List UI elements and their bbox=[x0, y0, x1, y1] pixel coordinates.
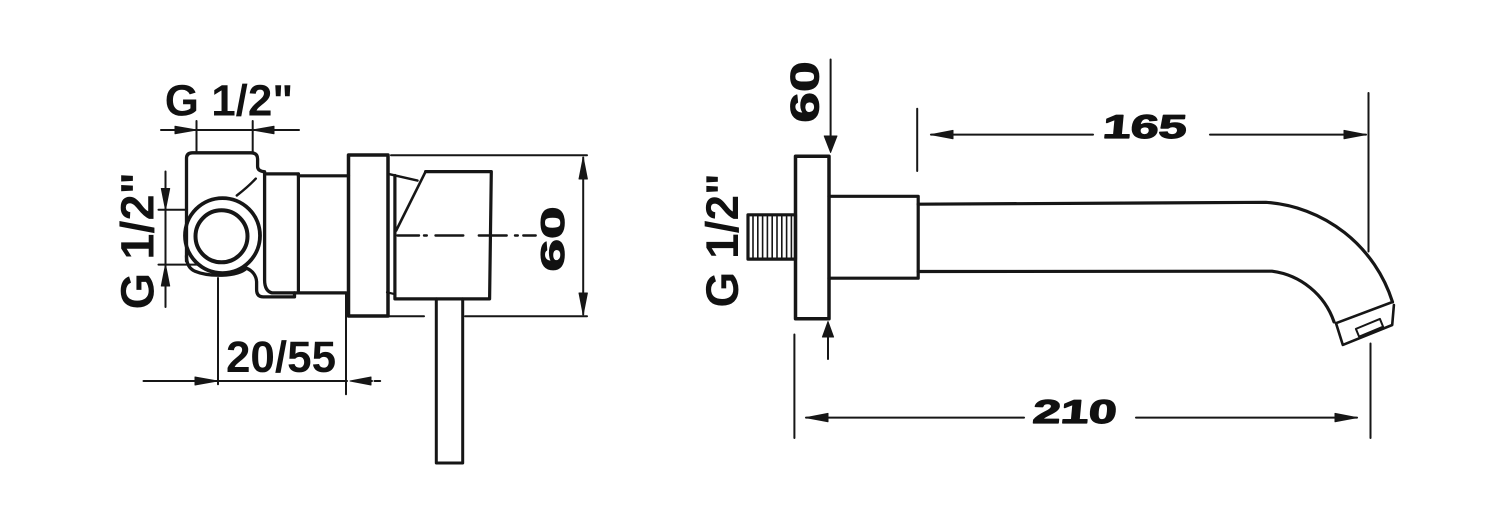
dimension 60 (right view) upper line bbox=[830, 60, 832, 141]
spout end face line bbox=[1336, 302, 1393, 323]
dimension 20/55 right arrow (points left) bbox=[350, 377, 371, 385]
svg-text:G 1/2": G 1/2" bbox=[165, 77, 293, 126]
spout tube bottom line and curve bbox=[918, 271, 1334, 322]
svg-text:210: 210 bbox=[1031, 393, 1118, 430]
dimension 60 (left view) vertical line bbox=[582, 158, 584, 315]
dimension 165 left arrow (points left) bbox=[931, 130, 953, 138]
dimension 210 left arrow (points left) bbox=[806, 413, 828, 421]
dimension 60 (right view) upper arrow (points down) bbox=[824, 136, 837, 153]
valve inlet block outline bbox=[187, 153, 347, 293]
dimension 165 left extension line bbox=[916, 109, 918, 171]
dimension 165 right extension line upper bbox=[1368, 93, 1370, 252]
dimension 20/55 dashes right bbox=[369, 380, 381, 382]
dimension 210 left extension line bbox=[793, 335, 795, 439]
dimension 20/55 right extension line bbox=[345, 293, 347, 394]
chamfer line inside block bbox=[237, 179, 256, 196]
dimension 210 right arrow (points right) bbox=[1335, 413, 1357, 421]
svg-text:G 1/2": G 1/2" bbox=[696, 173, 748, 307]
mid body top edge bbox=[265, 172, 299, 175]
dimension 165 right arrow (points right) bbox=[1344, 130, 1366, 138]
svg-text:165: 165 bbox=[1101, 108, 1188, 145]
dimension 165 right extension line lower bbox=[1370, 344, 1372, 439]
escutcheon plate bbox=[349, 155, 389, 316]
dimension 60 (left view) bottom extension line left part bbox=[382, 315, 424, 317]
svg-text:60: 60 bbox=[784, 61, 828, 122]
wall flange plate bbox=[796, 156, 830, 319]
mid body separator line bbox=[297, 174, 300, 293]
dimension 165 line left part bbox=[931, 134, 1093, 136]
dimension G 1/2" (left) vertical line bbox=[165, 172, 167, 308]
dimension 210 line right part bbox=[1136, 417, 1357, 419]
dimension 60 (left view) bottom arrow bbox=[579, 293, 587, 315]
dimension G 1/2" (left) bottom arrow (points up) bbox=[161, 265, 169, 286]
aerator inner rectangle bbox=[1356, 319, 1383, 337]
centerline (dash-dot) bbox=[398, 234, 536, 236]
dimension 60 (right view) lower stem bbox=[827, 336, 829, 359]
spout base section bbox=[829, 196, 918, 278]
dimension 20/55 left extension line (from port center) bbox=[217, 278, 219, 384]
handle body outline bbox=[395, 172, 491, 299]
dimension 60 (left view) bottom extension line right part bbox=[465, 315, 587, 317]
dimension 20/55 left arrow (points right) bbox=[195, 377, 218, 385]
svg-text:20/55: 20/55 bbox=[226, 333, 336, 382]
svg-text:60: 60 bbox=[534, 206, 571, 271]
dimension 60 (left view) top extension line bbox=[391, 154, 587, 156]
ring section top edge bbox=[298, 174, 348, 177]
dimension G 1/2" (left) top arrow (points down) bbox=[161, 189, 169, 210]
thread hatch lines bbox=[753, 217, 791, 258]
dimension G 1/2" (top) right arrow bbox=[253, 126, 274, 134]
neck bottom tick bbox=[387, 292, 396, 294]
dimension 60 (left view) top arrow bbox=[579, 158, 587, 180]
svg-text:G 1/2": G 1/2" bbox=[111, 172, 164, 309]
neck top slant bbox=[390, 174, 418, 180]
threaded nipple body bbox=[748, 215, 796, 259]
valve body bottom shelf under port bbox=[187, 256, 295, 297]
dimension G 1/2" (top) left arrow bbox=[175, 126, 197, 134]
dimension G 1/2" (top) right extension line bbox=[252, 121, 254, 153]
spout tube top line and curve bbox=[918, 202, 1392, 302]
dimension G 1/2" (left) bottom tick bbox=[159, 264, 201, 266]
dimension 210 line left part bbox=[806, 417, 1024, 419]
inlet port inner circle bbox=[196, 210, 248, 262]
dimension 60 (right view) lower arrow (points up) bbox=[822, 322, 833, 338]
dimension 165 line right part bbox=[1210, 134, 1366, 136]
dimension G 1/2" (left) top tick bbox=[159, 209, 188, 211]
dimension 20/55 line bbox=[144, 380, 348, 382]
handle lever stem bbox=[436, 299, 462, 463]
dimension G 1/2" (top) line bbox=[161, 129, 299, 131]
inlet port outer circle bbox=[185, 198, 260, 273]
handle cone diagonal bbox=[396, 172, 425, 231]
aerator cap bbox=[1336, 305, 1394, 345]
dimension G 1/2" (top) left extension line bbox=[196, 121, 198, 153]
